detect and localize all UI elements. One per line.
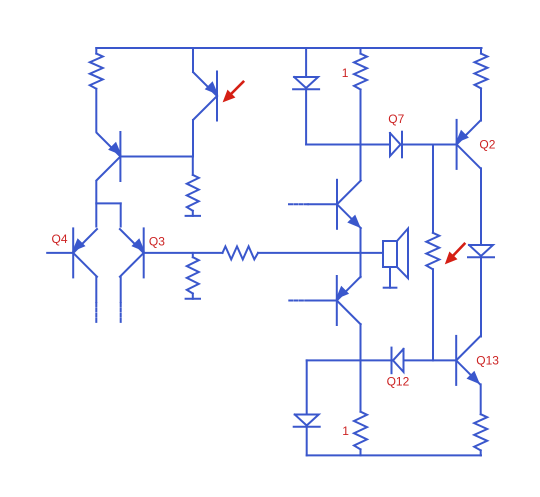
transistor Q1 (PNP, VAS input) — [97, 132, 122, 181]
transistor Q3 (PNP, diff pair right) — [120, 228, 145, 277]
wire — [192, 157, 194, 175]
wire — [404, 144, 457, 146]
svg-text:Q7: Q7 — [388, 112, 404, 126]
wire: base — [308, 203, 337, 205]
transistor (lower driver PNP) — [336, 276, 361, 325]
wire — [432, 145, 434, 233]
wire: top supply rail — [96, 47, 481, 49]
svg-text:1: 1 — [342, 66, 349, 80]
svg-text:1: 1 — [342, 424, 349, 438]
terminal bar — [186, 298, 200, 300]
speaker ground lead — [389, 267, 391, 288]
annotation arrow (points at Vbe resistor) — [445, 244, 465, 265]
wire — [120, 203, 122, 226]
wire — [360, 90, 362, 181]
wire — [480, 450, 482, 455]
wire — [95, 89, 97, 132]
wire: bias rail — [306, 144, 390, 146]
wire — [307, 359, 392, 361]
label 1 (top resistor value) — [342, 66, 349, 80]
wire: dashed continuation — [120, 303, 122, 324]
diode (bottom-left vertical) — [294, 415, 320, 427]
resistor 1 (top, VAS load) — [354, 54, 367, 90]
wire: Q3 base line — [144, 252, 223, 254]
wire: Q4 base stub — [47, 252, 73, 254]
resistor (below Q1 base node) — [187, 175, 199, 211]
wire: Q2 collector down — [480, 168, 482, 245]
resistor (top-left, from rail) — [90, 54, 103, 89]
wire: Q13 emitter down — [480, 384, 482, 414]
transistor Q2 (PNP output) — [455, 120, 480, 169]
label Q7 — [388, 112, 404, 126]
wire — [192, 120, 194, 157]
wire — [360, 48, 362, 54]
label Q3 — [149, 235, 165, 249]
wire — [306, 427, 308, 456]
transistor (upper driver NPN) — [337, 180, 361, 229]
wire — [192, 48, 194, 72]
wire — [480, 88, 482, 120]
wire: Q1 collector down — [95, 181, 97, 227]
wire — [306, 360, 308, 414]
label Q13 — [476, 353, 499, 367]
wire — [360, 449, 362, 455]
svg-text:Q2: Q2 — [479, 137, 495, 151]
wire: to speaker — [361, 252, 384, 254]
speaker horn — [397, 229, 408, 279]
wire — [480, 48, 482, 54]
wire: output node column — [360, 228, 362, 277]
diode D1 body — [293, 77, 319, 89]
resistor (Vbe multiplier, red-arrow marked) — [426, 233, 439, 269]
wire: emitter tie link — [96, 202, 120, 204]
transistor with floating base (red-arrow marked) — [193, 72, 218, 121]
diode Q7 (bias) — [390, 132, 402, 158]
diode (right, vertical) — [468, 245, 494, 257]
transistor Q4 (PNP, diff pair left) — [72, 228, 97, 277]
resistor (bottom-right) — [474, 414, 487, 450]
wire: feedback to output node — [258, 252, 361, 254]
label 1 (bottom resistor value) — [342, 424, 349, 438]
terminal bar — [186, 215, 200, 217]
resistor (Q3 base to terminal) — [187, 257, 199, 293]
wire: dashed continuation — [95, 303, 97, 324]
wire — [192, 211, 194, 216]
wire — [192, 253, 194, 257]
wire: Q4 collector down — [95, 277, 97, 302]
wire: dashed base stub — [289, 300, 308, 302]
wire — [192, 294, 194, 299]
svg-text:Q13: Q13 — [476, 353, 499, 367]
resistor 1 (bottom) — [354, 412, 367, 450]
resistor (top-right, from rail) — [475, 54, 488, 89]
terminal bar — [384, 287, 397, 289]
wire — [404, 359, 457, 361]
annotation arrow (points at floating-base transistor) — [223, 82, 244, 103]
label Q2 — [479, 137, 495, 151]
diode Q12 (bias) — [392, 348, 404, 374]
wire — [432, 269, 434, 360]
wire — [480, 257, 482, 336]
wire: Q3 collector down — [120, 277, 122, 302]
diode (top-left vertical) — [305, 48, 307, 77]
label Q12 — [387, 374, 410, 388]
label Q4 — [52, 232, 68, 246]
svg-text:Q3: Q3 — [149, 235, 165, 249]
resistor (feedback, horizontal) — [223, 246, 259, 259]
speaker (driver box) — [383, 241, 397, 267]
wire: Q1 base to node — [120, 156, 193, 158]
wire: bottom rail — [307, 454, 481, 456]
svg-text:Q12: Q12 — [387, 374, 410, 388]
wire — [360, 324, 362, 412]
svg-text:Q4: Q4 — [52, 232, 68, 246]
transistor Q13 (NPN output) — [456, 336, 480, 385]
wire — [305, 89, 307, 144]
wire: base — [309, 300, 337, 302]
wire: dashed base stub — [289, 203, 308, 205]
wire — [95, 48, 97, 54]
